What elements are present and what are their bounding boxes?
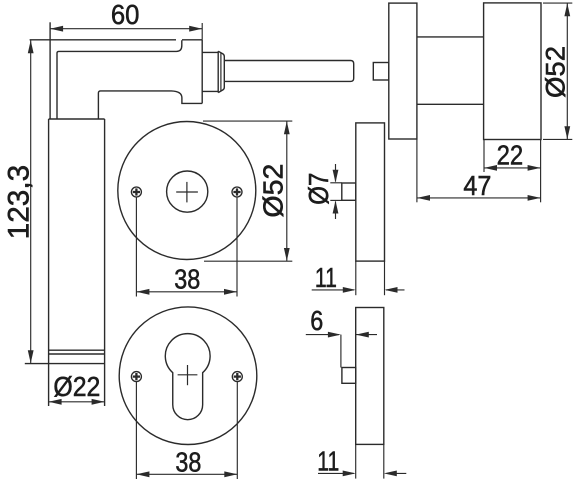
svg-text:Ø52: Ø52 [257,164,288,218]
svg-text:6: 6 [310,305,323,336]
svg-text:Ø52: Ø52 [540,46,570,98]
svg-text:22: 22 [497,139,524,170]
svg-text:Ø22: Ø22 [53,371,100,402]
svg-text:38: 38 [174,263,200,294]
svg-text:Ø7: Ø7 [303,173,334,205]
svg-text:60: 60 [111,0,140,30]
svg-text:11: 11 [315,262,337,293]
svg-text:38: 38 [175,447,201,478]
svg-text:11: 11 [317,446,339,477]
svg-text:123,3: 123,3 [3,165,36,240]
svg-text:47: 47 [463,170,491,201]
